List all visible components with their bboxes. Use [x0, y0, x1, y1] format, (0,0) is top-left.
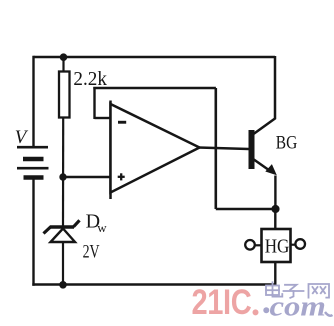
wire zener anode to bottom rail	[62, 242, 64, 285]
svg-text:BG: BG	[276, 133, 298, 154]
wire resistor top lead	[62, 57, 64, 72]
wire feedback left vertical	[93, 87, 95, 119]
wire node to HG top	[274, 209, 276, 229]
wire bottom rail	[32, 283, 274, 286]
op-amp plus sign	[118, 173, 125, 180]
svg-text:21IC: 21IC	[192, 282, 252, 321]
wire HG bottom to rail	[274, 262, 276, 285]
op-amp minus sign	[118, 121, 126, 124]
svg-text:2V: 2V	[83, 242, 100, 262]
HG right terminal circle	[295, 239, 305, 249]
wire feedback bottom horizontal to emitter node	[216, 208, 275, 211]
HG right stub	[291, 244, 297, 246]
wire emitter down to node	[274, 176, 276, 210]
wire left battery vertical top	[32, 56, 34, 147]
transistor BG emitter with arrow	[254, 159, 270, 170]
wire top supply rail	[34, 56, 276, 59]
node junction bottom rail	[59, 281, 67, 289]
HG left terminal circle	[245, 240, 255, 250]
resistor 2.2k body	[59, 72, 70, 118]
watermark dot after C	[253, 309, 259, 315]
wire op-amp output to base	[199, 148, 249, 150]
watermark .com dot	[263, 307, 269, 313]
zener diode Dw	[44, 220, 80, 242]
wire plus input	[63, 176, 111, 178]
wire minus input	[95, 117, 111, 119]
earphone HG box	[262, 229, 291, 262]
wire left battery vertical bottom	[32, 178, 34, 286]
wire resistor bottom lead down to zener	[62, 118, 64, 227]
watermark dianzi wang chars	[266, 282, 329, 298]
node junction plus-input tap	[59, 173, 66, 180]
wire feedback right vertical	[215, 88, 218, 209]
transistor BG base bar	[249, 130, 255, 169]
HG left stub	[254, 244, 261, 246]
op-amp U1	[109, 101, 112, 200]
transistor BG collector	[254, 56, 276, 134]
wire feedback top horizontal	[93, 87, 216, 90]
svg-text:V: V	[15, 127, 29, 148]
watermark m swash	[325, 312, 333, 316]
node junction emitter / feedback / HG	[271, 205, 279, 213]
svg-text:w: w	[97, 220, 107, 235]
battery V	[17, 147, 49, 177]
svg-text:HG: HG	[265, 236, 290, 257]
svg-text:com: com	[270, 291, 326, 322]
node junction top rail / resistor	[60, 53, 68, 61]
